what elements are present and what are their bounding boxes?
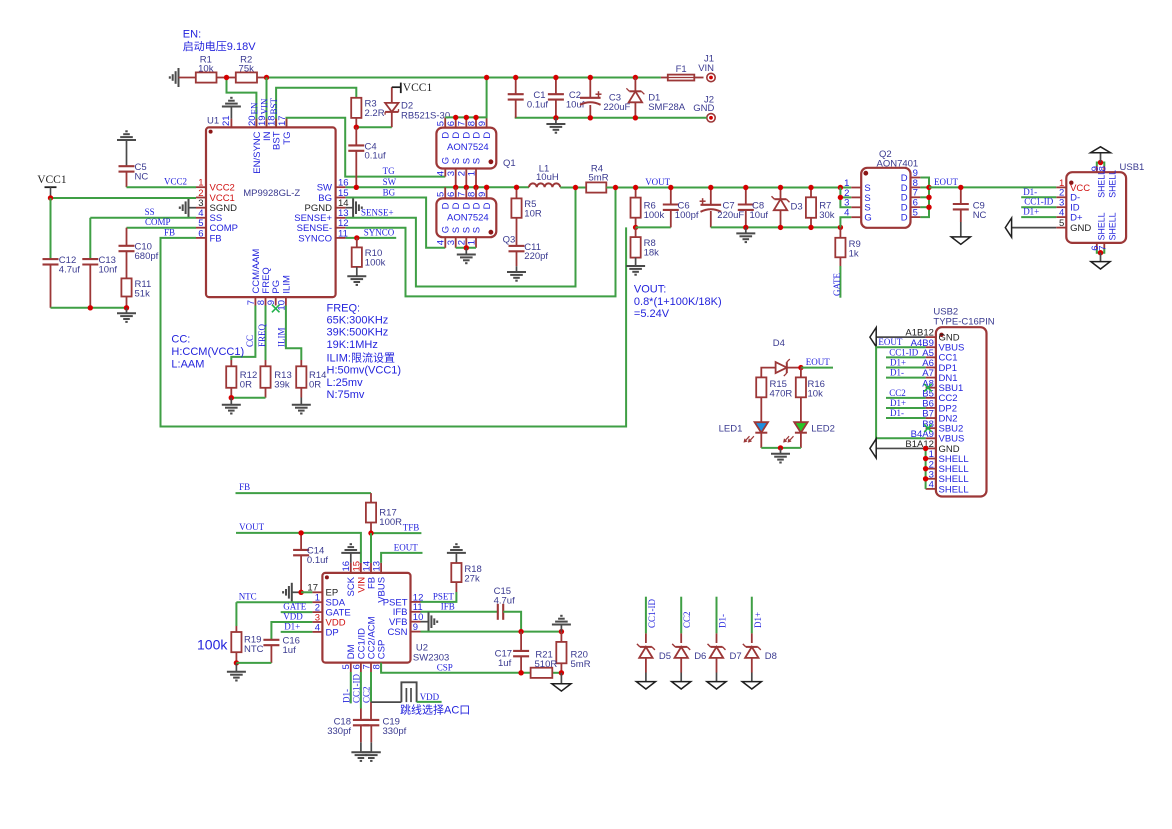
junction dot SYNCO-R10 — [354, 235, 359, 240]
svg-text:VIN: VIN — [260, 98, 270, 114]
ground below C11 — [516, 266, 518, 272]
svg-text:GND: GND — [1070, 223, 1091, 234]
svg-text:10k: 10k — [808, 389, 824, 400]
junction dot SW at R5 — [514, 185, 519, 190]
svg-text:VDD: VDD — [283, 612, 303, 622]
capacitor C15 4.7uf — [497, 604, 499, 620]
junction dot VOUT at R6 — [633, 185, 638, 190]
svg-text:FB: FB — [239, 482, 250, 492]
svg-text:USB1: USB1 — [1120, 162, 1145, 173]
svg-text:100k: 100k — [644, 210, 665, 221]
junction dot R11 bottom — [124, 305, 129, 310]
svg-text:FREQ: FREQ — [257, 323, 267, 347]
svg-text:8: 8 — [466, 192, 477, 197]
svg-text:D+: D+ — [1070, 213, 1083, 224]
svg-text:220uF: 220uF — [603, 102, 630, 113]
capacitor C1 0.1uf — [515, 78, 517, 95]
svg-text:100pf: 100pf — [675, 210, 699, 221]
no-connect X on B8 — [924, 424, 932, 432]
svg-text:LED2: LED2 — [811, 423, 835, 434]
svg-text:0R: 0R — [240, 379, 252, 390]
svg-text:4: 4 — [436, 240, 447, 245]
U2 left pin stubs — [312, 591, 322, 593]
svg-text:4: 4 — [315, 622, 320, 633]
svg-text:510R: 510R — [535, 659, 558, 670]
svg-text:13: 13 — [372, 561, 383, 572]
svg-text:10uf: 10uf — [750, 210, 769, 221]
resistor R15 470R — [756, 377, 766, 397]
junction dot VOUT at R7 — [808, 185, 813, 190]
mosfet Q2 AON7401 body — [861, 168, 910, 228]
svg-text:5: 5 — [1059, 218, 1064, 229]
svg-text:D4: D4 — [773, 338, 785, 349]
junction dot rail at C2 — [553, 75, 558, 80]
svg-text:H:50mv(VCC1): H:50mv(VCC1) — [327, 365, 402, 377]
svg-text:8: 8 — [466, 121, 477, 126]
junction dot SW at Q3 pin9 riser — [484, 185, 489, 190]
svg-text:NC: NC — [135, 171, 149, 182]
svg-text:启动电压9.18V: 启动电压9.18V — [183, 40, 256, 53]
wire VDD stub at jumper — [417, 701, 442, 703]
svg-text:EOUT: EOUT — [878, 337, 902, 347]
junction dot Q3 source ground — [464, 245, 469, 250]
svg-text:CC2: CC2 — [682, 611, 692, 628]
svg-text:VDD: VDD — [420, 692, 440, 702]
svg-text:27k: 27k — [464, 574, 480, 585]
svg-text:D1-: D1- — [1023, 187, 1037, 197]
resistor R11 51k — [121, 278, 131, 296]
connector J1 VIN — [707, 73, 715, 81]
svg-text:9: 9 — [413, 622, 418, 633]
svg-text:FB: FB — [210, 233, 222, 244]
U1 left pin stubs — [196, 186, 206, 188]
wire L1 to R4 — [560, 187, 586, 189]
ground below LEDs — [780, 448, 782, 454]
junction dot EOUT at D4 — [798, 365, 803, 370]
Q3 bottom stubs — [444, 237, 446, 248]
junction dot EOUT at C9 — [958, 185, 963, 190]
ground SGND at U1 pin3 — [189, 207, 197, 209]
svg-text:S: S — [471, 227, 482, 233]
svg-text:CC2: CC2 — [889, 388, 906, 398]
svg-text:4: 4 — [1059, 208, 1064, 219]
junction dot VIN below R2 — [264, 75, 269, 80]
svg-text:D1-: D1- — [890, 368, 904, 378]
svg-text:VCC1: VCC1 — [37, 174, 67, 186]
capacitor C13 10nf — [89, 218, 91, 259]
svg-text:10uH: 10uH — [536, 172, 559, 183]
wire CSN row — [421, 631, 562, 633]
svg-text:TG: TG — [383, 166, 395, 176]
svg-text:L:AAM: L:AAM — [171, 358, 204, 370]
svg-text:220pf: 220pf — [524, 251, 548, 262]
ic U2 SW2303 body — [322, 573, 410, 663]
resistor R9 1k gate pulldown — [839, 227, 841, 237]
svg-text:2.2R: 2.2R — [365, 108, 385, 119]
junction dot VCC1 node — [48, 195, 53, 200]
capacitor C3 220uF polarized — [589, 78, 591, 98]
resistor R18 27k — [447, 552, 466, 554]
mosfet Q3 AON7524 body — [436, 198, 496, 237]
svg-text:MP9928GL-Z: MP9928GL-Z — [243, 188, 300, 199]
svg-text:AON7524: AON7524 — [447, 213, 489, 224]
ground triangle USB2 B1A12 — [876, 447, 926, 449]
ground Q3 sources — [465, 248, 467, 255]
resistor R12 0R — [231, 306, 255, 361]
wire SENSE- kelvin from pin12 — [346, 188, 616, 297]
svg-text:SS: SS — [145, 207, 155, 217]
svg-text:TG: TG — [282, 132, 293, 145]
svg-text:D1-: D1- — [718, 614, 728, 628]
no-connect X on U1 pin9 PG — [272, 305, 280, 313]
svg-text:65K:300KHz: 65K:300KHz — [327, 315, 389, 327]
wire GATE to U2 pin2 — [281, 611, 313, 613]
wire EOUT stub at D4 — [801, 367, 833, 369]
capacitor C10 680pf — [126, 228, 128, 246]
wire SENSE+ kelvin from pin13 — [346, 188, 576, 287]
diode D8 esd — [751, 597, 753, 634]
svg-text:Q1: Q1 — [503, 158, 516, 169]
USB1 shell pins bottom — [1096, 243, 1098, 249]
junction dot rail at C3 — [588, 75, 593, 80]
svg-text:NC: NC — [973, 210, 987, 221]
svg-text:1uf: 1uf — [498, 658, 512, 669]
svg-text:D1+: D1+ — [753, 612, 763, 628]
svg-text:1k: 1k — [849, 248, 859, 259]
svg-text:LED1: LED1 — [719, 423, 743, 434]
diode D6 esd — [680, 597, 682, 634]
junction dot VOUT at C7 — [708, 185, 713, 190]
svg-text:NTC: NTC — [244, 644, 264, 655]
svg-text:IFB: IFB — [441, 601, 455, 611]
ground triangle at USB1 pin5 — [1012, 227, 1057, 229]
svg-text:D: D — [441, 202, 452, 209]
svg-text:SENSE+: SENSE+ — [361, 207, 394, 217]
svg-text:39K:500KHz: 39K:500KHz — [327, 327, 389, 339]
svg-text:G: G — [864, 213, 871, 224]
ground PGND at U1 pin14 — [346, 207, 354, 209]
svg-text:4: 4 — [436, 171, 447, 176]
wire FB node to C6 — [636, 226, 671, 228]
svg-text:3: 3 — [446, 171, 457, 176]
svg-text:RB521S-30: RB521S-30 — [401, 111, 450, 122]
wire ground rail under C12 C13 R11 — [51, 307, 127, 309]
svg-text:VCC2: VCC2 — [164, 177, 187, 187]
U1 right pin stubs — [336, 186, 346, 188]
capacitor C17 1uf — [520, 632, 522, 651]
junction dot R17 bottom — [368, 530, 373, 535]
wire Q2 gate to divider node — [840, 217, 851, 227]
resistor R17 100R — [370, 493, 372, 503]
junction dot C8 bottom gnd stem — [743, 225, 748, 230]
svg-text:1: 1 — [466, 240, 477, 245]
wire CSP row — [381, 663, 530, 673]
svg-text:6: 6 — [198, 228, 203, 239]
svg-text:SHELL: SHELL — [1096, 212, 1106, 240]
ground triangle below C9 — [951, 237, 970, 244]
svg-text:D1+: D1+ — [890, 357, 906, 367]
resistor R14 0R — [286, 306, 301, 361]
svg-text:470R: 470R — [770, 389, 793, 400]
svg-text:SYNCO: SYNCO — [298, 233, 332, 244]
U1 top pin stubs — [255, 119, 257, 128]
svg-text:0.8*(1+100K/18K): 0.8*(1+100K/18K) — [634, 296, 722, 308]
svg-text:SHELL: SHELL — [1096, 170, 1106, 198]
wire D1- to USB1 pin2 — [1021, 196, 1056, 198]
svg-text:CC1-ID: CC1-ID — [647, 599, 657, 629]
connector USB1 body — [1066, 172, 1126, 243]
svg-text:FREQ:: FREQ: — [327, 302, 361, 314]
junction dot gnd at C3 — [588, 115, 593, 120]
ground GND left of R1 — [178, 68, 180, 87]
svg-text:CC:: CC: — [171, 333, 190, 345]
wire VOUT rail — [606, 187, 851, 189]
junction dot Q2 S2 — [838, 195, 843, 200]
svg-text:TFB: TFB — [403, 523, 420, 533]
svg-text:=5.24V: =5.24V — [634, 308, 670, 320]
wire TFB row — [371, 532, 421, 534]
junction dot R12 bottom — [229, 395, 234, 400]
svg-text:跳线选择AC口: 跳线选择AC口 — [400, 703, 470, 717]
svg-text:G: G — [441, 157, 452, 164]
ground below R8 — [626, 265, 645, 267]
svg-text:100k: 100k — [365, 257, 386, 268]
svg-text:CSP: CSP — [377, 640, 388, 660]
wire DM pin5 stub D1- — [350, 672, 352, 703]
junction dots Q1 drain bus — [453, 115, 458, 120]
svg-text:6: 6 — [446, 192, 457, 197]
svg-text:D: D — [482, 132, 493, 139]
svg-text:D: D — [451, 202, 462, 209]
capacitor C4 0.1uf — [355, 127, 357, 145]
junction dot VOUT at C14 — [298, 530, 303, 535]
wire Q2 drain bus — [920, 178, 929, 218]
svg-text:D: D — [471, 132, 482, 139]
svg-text:ILIM: ILIM — [277, 328, 287, 348]
svg-text:10nf: 10nf — [99, 264, 118, 275]
svg-text:BST: BST — [269, 97, 279, 114]
led LED1 blue — [755, 422, 768, 433]
svg-text:100R: 100R — [379, 517, 402, 528]
junction dot VOUT at C8 — [743, 185, 748, 190]
svg-text:BG: BG — [383, 188, 396, 198]
svg-text:4.7uf: 4.7uf — [59, 264, 80, 275]
diode D5 esd — [645, 597, 647, 634]
junction dots SW at Q1 sources — [453, 185, 458, 190]
inductor L1 10uH — [529, 183, 560, 187]
capacitor C5 NC — [117, 139, 136, 141]
svg-text:SYNCO: SYNCO — [364, 227, 395, 237]
junction dot VOUT at C6 — [668, 185, 673, 190]
junction dot CSN at R20 — [559, 629, 564, 634]
svg-text:VOUT: VOUT — [645, 177, 670, 187]
junction dot rail at C1 — [513, 75, 518, 80]
junction dot sense- tap — [613, 185, 618, 190]
wire BST U1 pin18 to R3 — [276, 88, 356, 128]
svg-text:H:CCM(VCC1): H:CCM(VCC1) — [171, 346, 244, 358]
wire EOUT to VBUS A4B9 and B4A9 bus — [876, 347, 926, 438]
USB1 left pin stubs — [1056, 186, 1066, 188]
svg-text:SHELL: SHELL — [1108, 170, 1118, 198]
capacitor C12 4.7uf — [43, 258, 59, 260]
svg-text:BST: BST — [272, 131, 283, 150]
svg-text:100k: 100k — [197, 637, 228, 653]
svg-text:D8: D8 — [765, 651, 777, 662]
USB1 shell pins top — [1096, 166, 1098, 172]
junction dot VIN rail at Q1 — [484, 75, 489, 80]
wire input gnd rail — [515, 117, 707, 119]
junction dot gnd rail at D3 — [778, 225, 783, 230]
wire D1+ to U2 pin4 — [281, 631, 313, 633]
svg-text:F1: F1 — [676, 64, 687, 75]
svg-text:S: S — [451, 227, 462, 233]
wire VDD to U2 pin3 via C16 — [271, 622, 312, 640]
ground at U2 EP pin17 — [291, 583, 293, 602]
svg-text:330pf: 330pf — [327, 726, 351, 737]
wire VOUT row to U2 pin15 — [236, 533, 361, 563]
svg-text:VIN: VIN — [698, 63, 714, 74]
svg-text:D1-: D1- — [890, 408, 904, 418]
svg-text:1uf: 1uf — [283, 645, 297, 656]
svg-text:U1: U1 — [207, 116, 219, 127]
capacitor C19 330pf — [370, 672, 372, 702]
svg-text:L:25mv: L:25mv — [327, 377, 364, 389]
svg-text:D6: D6 — [694, 651, 706, 662]
wire SW row from U1 pin16 — [346, 186, 529, 188]
wire TG U1 pin17 toward Q1 gate — [287, 118, 446, 177]
wire R12-R13 bottoms — [231, 397, 265, 399]
resistor R19 NTC — [235, 602, 237, 626]
diode D7 esd — [716, 597, 718, 634]
junction dot FB node — [633, 225, 638, 230]
svg-text:CC1-ID: CC1-ID — [889, 347, 919, 357]
wire shell tie bus — [925, 448, 927, 488]
svg-text:680pf: 680pf — [135, 251, 159, 262]
svg-text:CSP: CSP — [437, 662, 453, 672]
wire D1+ to A6 — [886, 366, 926, 368]
wire CC1-ID to A5 — [886, 356, 926, 358]
wire Q2 source tie to VOUT — [840, 188, 851, 208]
capacitor C9 NC — [960, 187, 962, 204]
resistor R8 18k divider bottom — [635, 227, 637, 237]
svg-text:17: 17 — [277, 115, 288, 126]
capacitor C16 1uf — [263, 639, 279, 641]
U2 right pin stubs — [411, 601, 421, 603]
svg-text:EN: EN — [249, 102, 259, 114]
wire VCC2 to U1 pin1 — [127, 186, 197, 188]
svg-text:3: 3 — [446, 240, 457, 245]
resistor R5 10R snubber — [516, 187, 518, 198]
svg-text:D: D — [482, 202, 493, 209]
svg-text:18: 18 — [267, 115, 278, 126]
junction dot LED gnd — [778, 445, 783, 450]
svg-text:5mR: 5mR — [571, 659, 591, 670]
diode D2 RB521S-30 schottky — [391, 112, 393, 127]
svg-text:D1-: D1- — [341, 689, 351, 703]
svg-text:D: D — [901, 213, 908, 224]
svg-text:S: S — [471, 158, 482, 164]
junction dot gnd at C2 — [553, 115, 558, 120]
svg-text:EN:: EN: — [183, 28, 201, 40]
ic U1 MP9928GL-Z body — [206, 127, 336, 297]
resistor R13 39k — [265, 306, 267, 361]
svg-text:ILIM: ILIM — [281, 275, 292, 294]
capacitor C6 100pf — [670, 188, 672, 205]
ground below C2 — [555, 118, 557, 124]
U1 bottom pin stubs — [254, 297, 256, 305]
svg-text:220uF: 220uF — [717, 210, 744, 221]
jumper J VDD select — [401, 682, 416, 702]
wire Q3 source tie — [456, 247, 476, 249]
svg-text:AON7524: AON7524 — [447, 142, 489, 153]
Q3 top drain stubs on SW — [444, 187, 446, 198]
ground below R10 — [347, 275, 366, 277]
svg-text:GATE: GATE — [283, 602, 306, 612]
U1 pin 21 EP pad with ground above — [230, 119, 232, 128]
svg-text:CC2: CC2 — [362, 686, 372, 703]
svg-text:7: 7 — [1097, 246, 1108, 251]
svg-text:COMP: COMP — [145, 217, 171, 227]
svg-text:SW: SW — [383, 177, 397, 187]
svg-text:FB: FB — [164, 227, 175, 237]
junction dot R19 bottom — [234, 660, 239, 665]
svg-text:EOUT: EOUT — [934, 177, 958, 187]
junction dot CSN at C15/C17 — [518, 629, 523, 634]
svg-text:VCC1: VCC1 — [403, 82, 433, 94]
wire Q1 drain bus to VIN rail — [445, 78, 486, 118]
svg-text:GATE: GATE — [832, 273, 842, 296]
svg-text:SHELL: SHELL — [1108, 212, 1118, 240]
wire D1- to A7 — [886, 377, 926, 379]
svg-text:0.1uf: 0.1uf — [365, 151, 386, 162]
wire BG from U1 pin15 to Q3 gate — [346, 198, 446, 248]
wire EOUT row to U2 pin13 — [381, 553, 422, 563]
svg-text:D1+: D1+ — [1023, 207, 1039, 217]
diode D1 SMF28A tvs — [634, 78, 636, 92]
led LED2 green — [794, 422, 807, 433]
svg-text:D1+: D1+ — [284, 621, 300, 631]
wire CC2 to jumper — [371, 701, 401, 703]
resistor R3 2.2R — [351, 98, 361, 118]
svg-text:Q3: Q3 — [503, 235, 516, 246]
svg-text:D: D — [441, 132, 452, 139]
resistor R4 5mR shunt — [586, 182, 606, 192]
svg-text:0R: 0R — [309, 379, 321, 390]
Q2 right drain stubs — [911, 177, 921, 179]
svg-text:5mR: 5mR — [589, 173, 609, 184]
svg-text:TYPE-C16PIN: TYPE-C16PIN — [933, 316, 994, 327]
wire D1- to B7 — [886, 417, 926, 419]
ground below R14 — [300, 398, 302, 405]
svg-text:VOUT: VOUT — [239, 522, 264, 532]
svg-text:ILIM:限流设置: ILIM:限流设置 — [327, 350, 395, 364]
svg-text:18k: 18k — [644, 248, 660, 259]
svg-text:D: D — [471, 202, 482, 209]
connector J2 GND — [707, 114, 715, 122]
wire D1+ to B6 — [886, 407, 926, 409]
mosfet Q1 AON7524 body — [436, 128, 496, 169]
ground below R12 — [230, 398, 232, 405]
junction dot gate node R9 — [838, 225, 843, 230]
svg-text:DP: DP — [326, 627, 339, 638]
wire NTC to U2 pin1 — [236, 601, 312, 603]
wire VCC1 to U1 pin2 — [51, 197, 197, 199]
svg-text:39k: 39k — [274, 379, 290, 390]
fuse F1 — [661, 77, 668, 79]
Q1 top drain stubs and pin numbers — [444, 117, 446, 127]
junction dots shell bus — [923, 446, 928, 451]
svg-text:EOUT: EOUT — [806, 357, 830, 367]
